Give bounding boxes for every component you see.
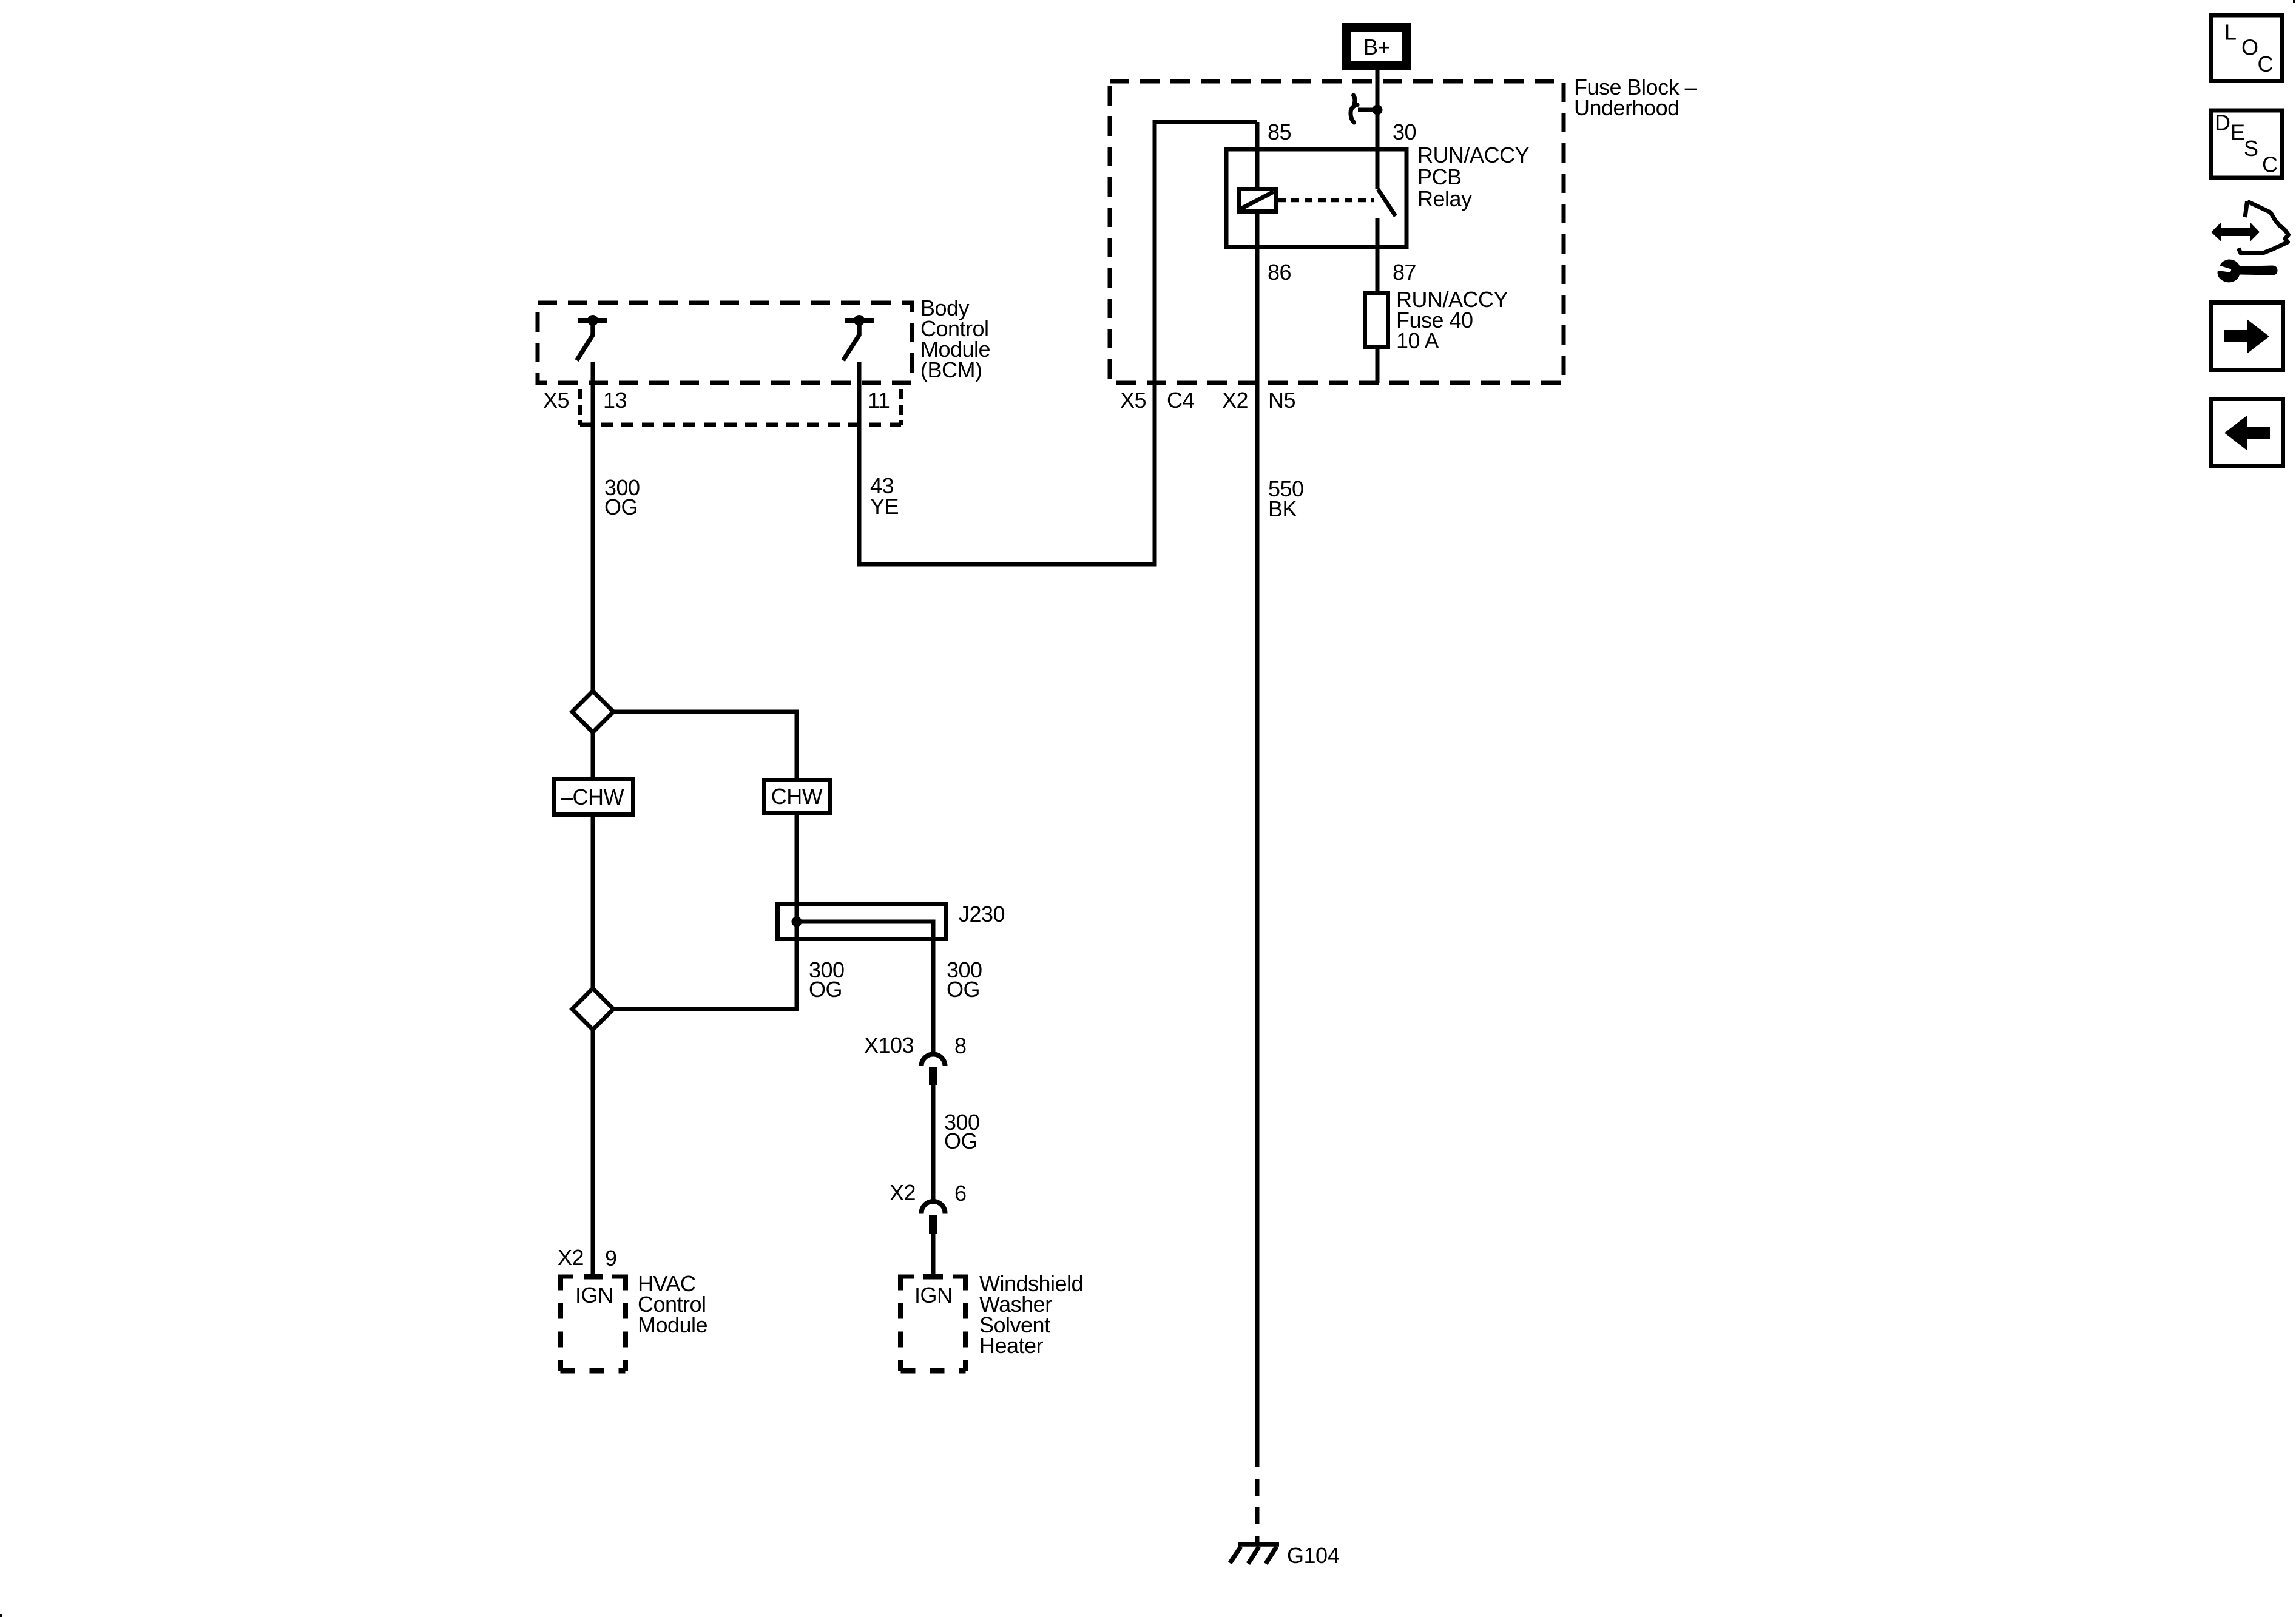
svg-text:13: 13 — [603, 388, 627, 413]
windshield washer solvent heater IGN dashed box — [901, 1275, 966, 1371]
svg-text:8: 8 — [954, 1033, 967, 1058]
svg-text:C: C — [2258, 52, 2274, 76]
in-line connector X2 symbol — [922, 1201, 945, 1234]
BCM connector X5 dashed sub-box — [580, 389, 901, 425]
svg-text:–CHW: –CHW — [561, 785, 624, 809]
wire X103 to X2 (300 OG) — [931, 1085, 936, 1201]
wire node B to HVAC IGN — [591, 1030, 595, 1275]
splice diamond node B — [572, 988, 613, 1030]
svg-text:OG: OG — [947, 977, 980, 1002]
page artifact dot bottom-left — [0, 1614, 2, 1617]
body control module dashed box — [538, 303, 912, 383]
svg-text:X2: X2 — [890, 1180, 916, 1205]
svg-text:X5: X5 — [1120, 388, 1146, 413]
svg-text:86: 86 — [1268, 260, 1291, 285]
relay switch pin 30 contact — [1376, 150, 1380, 189]
wire relay pin 86 down (550 BK) — [1255, 211, 1260, 1467]
fuse F1 RUN/ACCY Fuse 40 — [1365, 294, 1388, 348]
svg-text:O: O — [2241, 35, 2258, 60]
splice diamond node A — [572, 691, 613, 732]
svg-text:6: 6 — [954, 1181, 967, 1206]
label RUN/ACCY Fuse 40 10 A — [1396, 287, 1508, 353]
wire T-bar to connector hook — [1358, 108, 1377, 112]
nav icon wrench — [2218, 259, 2278, 282]
svg-text:X2: X2 — [558, 1245, 584, 1270]
svg-text:(BCM): (BCM) — [920, 357, 982, 382]
svg-text:X5: X5 — [543, 388, 569, 413]
svg-text:IGN: IGN — [914, 1283, 953, 1308]
svg-text:C: C — [2262, 152, 2278, 177]
label 550 BK — [1268, 476, 1304, 521]
svg-text:BK: BK — [1268, 496, 1297, 521]
svg-text:J230: J230 — [959, 902, 1005, 927]
svg-text:OG: OG — [944, 1129, 977, 1153]
wire C4 feed (from BCM pin 11 up to relay pin 85) — [859, 122, 1257, 564]
switch S1 (BCM pin 13 driver) — [577, 315, 608, 360]
svg-text:C4: C4 — [1167, 388, 1194, 413]
svg-text:Module: Module — [638, 1312, 707, 1337]
wire relay pin 85 drop — [1255, 122, 1260, 189]
power symbol B+ — [1347, 28, 1407, 66]
svg-text:OG: OG — [809, 977, 842, 1002]
label 300 OG (upper) — [604, 475, 640, 519]
wire -CHW to node B — [591, 815, 595, 990]
label 300 OG (left branch) — [809, 957, 845, 1002]
svg-text:Underhood: Underhood — [1574, 95, 1680, 120]
wire fuse to block edge — [1376, 349, 1380, 383]
nav icon back arrow button — [2211, 399, 2283, 467]
wire BCM pin 13 down (300 OG) — [591, 362, 595, 692]
svg-text:RUN/ACCY: RUN/ACCY — [1417, 143, 1530, 167]
switch S2 (BCM pin 11 driver) — [843, 315, 874, 360]
nav icon LOC button — [2211, 15, 2282, 81]
label Fuse Block - Underhood — [1574, 75, 1697, 120]
nav icon DESC button — [2211, 110, 2282, 178]
label 300 OG (right branch) — [947, 957, 982, 1002]
fuse block underhood dashed box — [1110, 81, 1564, 383]
svg-text:Relay: Relay — [1417, 186, 1472, 211]
svg-text:85: 85 — [1268, 120, 1291, 144]
svg-text:D: D — [2215, 110, 2230, 135]
svg-text:X2: X2 — [1222, 388, 1248, 413]
wire relay pin 87 to fuse — [1376, 218, 1380, 294]
svg-text:YE: YE — [870, 494, 899, 519]
svg-text:PCB: PCB — [1417, 164, 1462, 189]
svg-text:87: 87 — [1393, 260, 1416, 285]
label 300 OG (lower) — [944, 1110, 980, 1153]
label Body Control Module (BCM) — [920, 295, 990, 382]
label HVAC Control Module — [638, 1271, 707, 1337]
svg-text:IGN: IGN — [575, 1283, 613, 1308]
junction node on B+ feed — [1373, 105, 1383, 115]
nav icon forward arrow button — [2211, 303, 2283, 370]
wire X2 to heater IGN — [931, 1234, 936, 1275]
svg-text:9: 9 — [605, 1246, 617, 1271]
ground G104 symbol — [1230, 1544, 1279, 1564]
label 43 YE — [870, 473, 899, 519]
wire node A to -CHW — [591, 732, 595, 779]
HVAC control module IGN dashed box — [561, 1275, 626, 1371]
wire CHW through J230 to node B branch — [613, 813, 797, 1009]
svg-text:11: 11 — [868, 388, 890, 413]
svg-text:N5: N5 — [1268, 388, 1295, 413]
svg-text:E: E — [2230, 120, 2245, 145]
relay switch arm — [1378, 189, 1396, 216]
label Windshield Washer Solvent Heater — [979, 1271, 1083, 1358]
svg-text:S: S — [2244, 136, 2258, 161]
svg-text:B+: B+ — [1363, 35, 1390, 59]
nav icon vehicle outline — [2238, 201, 2289, 253]
junction dot in J230 — [792, 917, 802, 927]
wire B+ to relay pin 30 — [1376, 70, 1380, 150]
svg-text:G104: G104 — [1287, 1543, 1339, 1568]
svg-text:L: L — [2224, 20, 2237, 45]
svg-text:X103: X103 — [864, 1033, 914, 1058]
svg-text:OG: OG — [604, 495, 638, 519]
wire 550 BK dashed tail to ground — [1255, 1467, 1260, 1544]
nav icon vehicle double-arrow — [2211, 223, 2260, 241]
in-line connector X103 symbol — [922, 1055, 945, 1086]
svg-text:CHW: CHW — [771, 784, 823, 809]
relay actuation dashed link — [1278, 198, 1374, 203]
relay U1 RUN/ACCY PCB Relay box — [1226, 149, 1406, 247]
component -CHW box — [555, 780, 633, 815]
relay coil — [1239, 189, 1276, 212]
page artifact dot top-right — [2293, 0, 2295, 3]
connector hook symbol (fuse block feed) — [1351, 95, 1357, 123]
wire branch from node A to CHW — [613, 712, 797, 779]
svg-text:10 A: 10 A — [1396, 328, 1439, 353]
svg-text:30: 30 — [1393, 120, 1416, 144]
wire J230 splice output — [797, 922, 933, 1055]
splice J230 box — [778, 904, 946, 939]
component CHW box — [765, 780, 830, 813]
svg-text:Heater: Heater — [979, 1333, 1044, 1358]
label RUN/ACCY PCB Relay — [1417, 143, 1530, 211]
